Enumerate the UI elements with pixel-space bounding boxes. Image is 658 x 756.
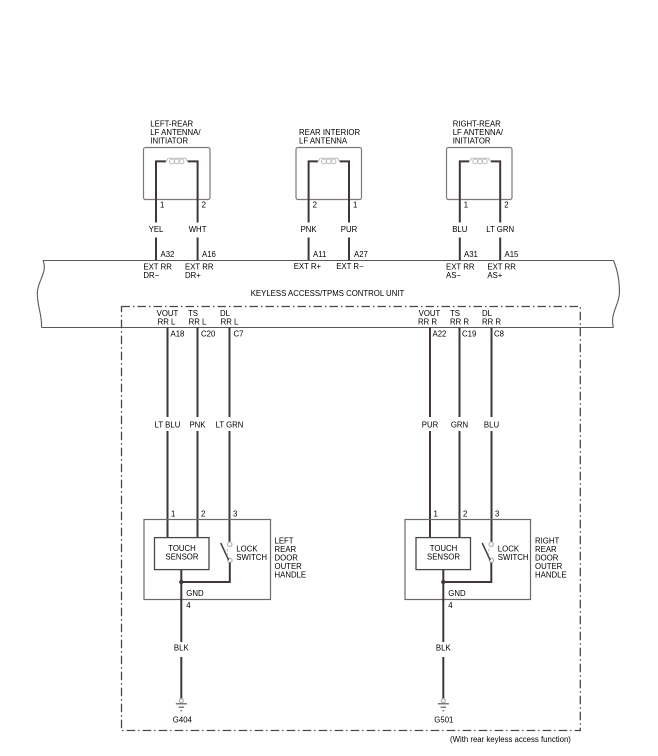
svg-text:YEL: YEL — [149, 225, 164, 234]
svg-text:C8: C8 — [494, 330, 504, 339]
svg-text:(With rear keyless access func: (With rear keyless access function) — [450, 735, 571, 744]
wire lock switch R to GND junction — [443, 563, 491, 582]
svg-text:WHT: WHT — [189, 225, 207, 234]
lock switch left — [221, 542, 232, 563]
svg-text:RR R: RR R — [482, 318, 501, 327]
coil left-rear antenna — [166, 158, 187, 164]
label: LEFT-REAR LF ANTENNA/INITIATOR — [150, 120, 201, 146]
svg-text:BLK: BLK — [436, 644, 452, 653]
touch sensor box left — [155, 538, 210, 570]
svg-text:C20: C20 — [201, 330, 216, 339]
svg-text:A27: A27 — [354, 250, 368, 259]
svg-text:BLK: BLK — [174, 644, 190, 653]
svg-text:SENSOR: SENSOR — [427, 552, 460, 561]
svg-text:PUR: PUR — [341, 225, 358, 234]
svg-text:C19: C19 — [462, 330, 476, 339]
net EXT RR AS- — [446, 263, 475, 280]
label: REAR INTERIOR LF ANTENNA — [299, 128, 360, 146]
control unit band left torn edge — [37, 261, 44, 328]
net VOUT RR R — [418, 309, 441, 327]
label TOUCH SENSOR left — [166, 544, 199, 562]
svg-text:A11: A11 — [313, 250, 326, 259]
svg-text:G501: G501 — [434, 716, 453, 725]
net DL RR L — [220, 309, 239, 327]
svg-text:RR L: RR L — [158, 318, 176, 327]
svg-text:LT BLU: LT BLU — [155, 421, 181, 430]
wire middle antenna pin1 (PUR to A27) — [340, 161, 349, 261]
svg-text:2: 2 — [504, 200, 508, 209]
svg-text:1: 1 — [353, 200, 357, 209]
junction dot left GND — [179, 580, 183, 584]
svg-text:C7: C7 — [234, 330, 244, 339]
svg-text:1: 1 — [434, 510, 438, 519]
control unit band bottom edge — [42, 327, 614, 329]
svg-text:GND: GND — [186, 589, 204, 598]
wire A18 to touch sensor L pin1 (LT BLU) — [167, 328, 169, 539]
wire C8 to lock switch R pin3 (BLU) — [491, 328, 493, 542]
net EXT RR AS+ — [487, 263, 516, 280]
svg-text:2: 2 — [201, 510, 205, 519]
svg-text:BLU: BLU — [452, 225, 468, 234]
label LOCK SWITCH left — [236, 545, 267, 563]
svg-text:G404: G404 — [173, 716, 193, 725]
svg-text:A18: A18 — [171, 330, 185, 339]
wire C20 to touch sensor L pin2 (PNK) — [197, 328, 199, 539]
net DL RR R — [482, 309, 501, 327]
svg-text:AS+: AS+ — [487, 271, 502, 280]
svg-text:SENSOR: SENSOR — [166, 552, 199, 561]
svg-text:PNK: PNK — [189, 421, 206, 430]
svg-text:3: 3 — [495, 510, 499, 519]
wire right antenna pin1 (BLU to A31) — [460, 161, 469, 261]
svg-text:KEYLESS ACCESS/TPMS CONTROL UN: KEYLESS ACCESS/TPMS CONTROL UNIT — [251, 289, 405, 298]
wire touch sensor R GND pin4 down — [442, 570, 444, 699]
svg-text:1: 1 — [171, 510, 175, 519]
svg-text:LT GRN: LT GRN — [486, 225, 514, 234]
svg-text:INITIATOR: INITIATOR — [150, 137, 188, 146]
svg-text:BLU: BLU — [484, 421, 500, 430]
net TS RR L — [188, 309, 207, 327]
junction dot right GND — [441, 580, 445, 584]
svg-text:GRN: GRN — [451, 421, 468, 430]
label RIGHT REAR DOOR OUTER HANDLE — [535, 537, 567, 580]
antenna box rear interior — [296, 148, 362, 200]
dash-dot boundary box (with rear keyless access function) — [122, 307, 581, 731]
ground symbol G501 — [438, 699, 449, 711]
coil rear interior antenna — [318, 158, 339, 164]
svg-text:A31: A31 — [464, 250, 478, 259]
svg-text:LF ANTENNA: LF ANTENNA — [299, 137, 348, 146]
lock switch right — [482, 542, 493, 563]
svg-text:GND: GND — [448, 589, 466, 598]
svg-text:4: 4 — [186, 601, 191, 610]
svg-text:A16: A16 — [202, 250, 216, 259]
coil right-rear antenna — [469, 158, 490, 164]
svg-text:LT GRN: LT GRN — [216, 421, 244, 430]
wire C7 to lock switch L pin3 (LT GRN) — [229, 328, 231, 542]
net EXT RR DR+ — [185, 263, 214, 280]
svg-text:RR R: RR R — [418, 318, 437, 327]
svg-text:HANDLE: HANDLE — [535, 571, 567, 580]
svg-text:A32: A32 — [161, 250, 175, 259]
svg-text:AS−: AS− — [446, 271, 461, 280]
svg-text:2: 2 — [463, 510, 467, 519]
svg-text:1: 1 — [464, 200, 468, 209]
label LEFT REAR DOOR OUTER HANDLE — [275, 537, 307, 580]
wire lock switch L to GND junction — [181, 563, 230, 582]
ground symbol G404 — [176, 699, 187, 711]
right rear door outer handle box — [405, 520, 531, 600]
svg-text:RR R: RR R — [450, 318, 469, 327]
svg-text:INITIATOR: INITIATOR — [453, 137, 491, 146]
svg-text:HANDLE: HANDLE — [275, 571, 307, 580]
svg-text:DR+: DR+ — [185, 271, 201, 280]
svg-text:4: 4 — [448, 601, 453, 610]
svg-text:EXT R+: EXT R+ — [294, 262, 322, 271]
svg-text:PNK: PNK — [301, 225, 318, 234]
control unit band top edge — [43, 260, 614, 262]
wire middle antenna pin2 (PNK to A11) — [309, 161, 318, 261]
svg-text:RR L: RR L — [189, 318, 207, 327]
svg-text:EXT R−: EXT R− — [336, 262, 364, 271]
svg-text:PUR: PUR — [422, 421, 439, 430]
touch sensor box right — [416, 538, 471, 570]
label LOCK SWITCH right — [498, 545, 529, 563]
label TOUCH SENSOR right — [427, 544, 460, 562]
antenna box right-rear — [447, 148, 513, 200]
svg-text:3: 3 — [233, 510, 237, 519]
net VOUT RR L — [157, 309, 179, 327]
net EXT RR DR- — [143, 263, 172, 280]
svg-text:SWITCH: SWITCH — [498, 553, 529, 562]
control unit band right torn edge — [613, 261, 620, 328]
svg-text:2: 2 — [202, 200, 206, 209]
wire right antenna pin2 (LT GRN to A15) — [491, 161, 500, 261]
svg-text:1: 1 — [160, 200, 164, 209]
antenna box left-rear — [144, 148, 211, 200]
wire touch sensor L GND pin4 down — [180, 570, 182, 699]
svg-text:SWITCH: SWITCH — [236, 553, 267, 562]
svg-text:2: 2 — [313, 200, 317, 209]
net TS RR R — [450, 309, 469, 327]
wire A22 to touch sensor R pin1 (PUR) — [429, 328, 431, 539]
wire left antenna pin2 (WHT to A16) — [188, 161, 198, 261]
label: RIGHT-REAR LF ANTENNA/INITIATOR — [453, 120, 504, 146]
svg-text:DR−: DR− — [143, 271, 159, 280]
svg-text:A22: A22 — [433, 330, 447, 339]
left rear door outer handle box — [144, 520, 271, 600]
wire left antenna pin1 (YEL to A32) — [156, 161, 166, 261]
svg-text:RR L: RR L — [221, 318, 239, 327]
wire C19 to touch sensor R pin2 (GRN) — [459, 328, 461, 539]
svg-text:A15: A15 — [505, 250, 520, 259]
